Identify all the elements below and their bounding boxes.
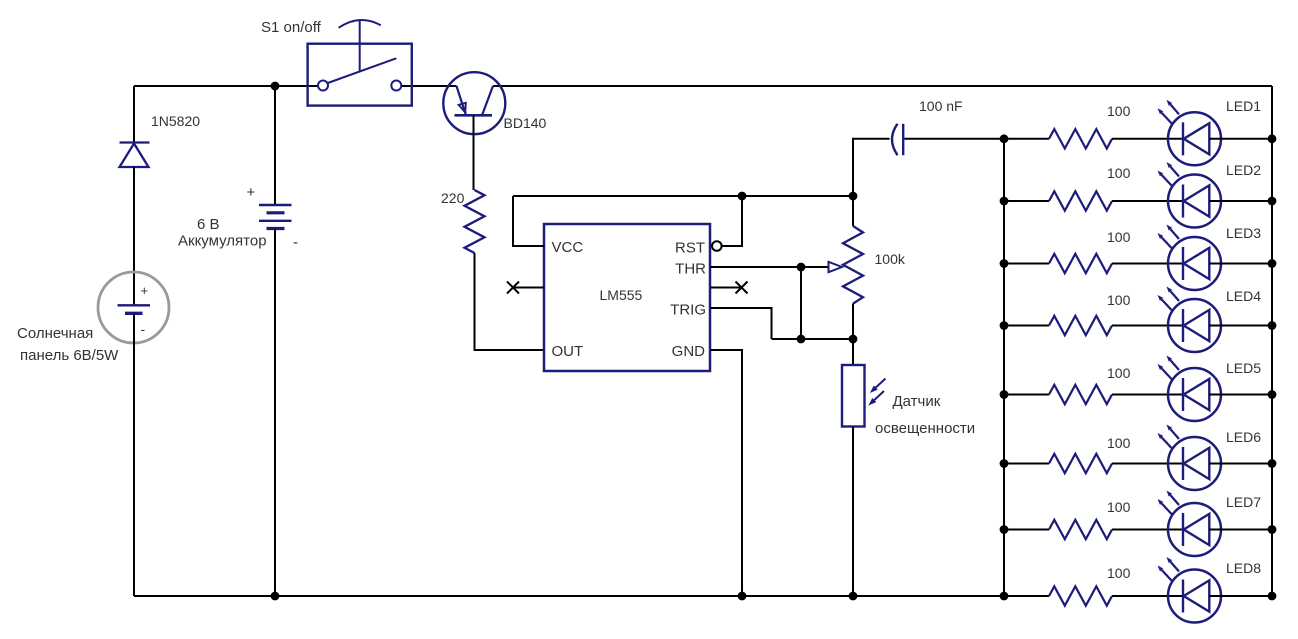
wire: top supply rail right segment (transistor to right LED bus)	[493, 85, 1272, 87]
pin label: RST	[675, 240, 705, 257]
label: LED2	[1226, 162, 1261, 178]
wire: diode anode down to solar panel	[133, 167, 135, 305]
LED5 emission arrow a	[1167, 356, 1180, 371]
label: LED7	[1226, 494, 1261, 510]
wire: row 8 left segment	[1004, 595, 1049, 597]
pin: RST inversion bubble	[712, 241, 722, 251]
label: 100 (row 1)	[1107, 103, 1131, 119]
wire: row 3 resistor to LED	[1112, 263, 1183, 265]
LED3 emission arrow b	[1158, 233, 1173, 249]
svg-text:100: 100	[1107, 292, 1131, 308]
wire: row 7 LED to right bus	[1209, 529, 1272, 531]
svg-text:100: 100	[1107, 499, 1131, 515]
LED3	[1168, 237, 1221, 290]
resistor 100 (row 8)	[1049, 586, 1112, 605]
label: 220	[441, 190, 465, 206]
op-amp/timer IC U1 LM555 body	[544, 224, 710, 371]
wire: bottom ground rail	[134, 595, 1049, 597]
junction: right bus row 4	[1268, 321, 1277, 330]
wire: TRIG pin route to TRIG node	[710, 307, 801, 339]
label: BD140	[504, 115, 547, 131]
LED1 emission arrow b	[1158, 108, 1173, 124]
resistor 100 (row 7)	[1049, 520, 1112, 539]
wire: row 1 LED to right bus	[1209, 138, 1272, 140]
label: Датчик освещенности	[875, 393, 975, 437]
svg-text:100k: 100k	[875, 251, 906, 267]
junction: right bus row 8	[1268, 592, 1277, 601]
pin label: GND	[672, 343, 706, 360]
junction: THR / wiper node	[797, 263, 806, 272]
resistor 100 (row 3)	[1049, 254, 1112, 273]
LED8 emission arrow b	[1158, 566, 1173, 582]
svg-text:GND: GND	[672, 343, 706, 360]
wire: row 4 LED to right bus	[1209, 325, 1272, 327]
wire: row 6 left segment	[1004, 463, 1049, 465]
junction: RST riser on distribution rail	[738, 192, 747, 201]
junction: battery tap on top rail	[271, 82, 280, 91]
junction: left bus row 1	[1000, 134, 1009, 143]
svg-text:100: 100	[1107, 165, 1131, 181]
wire: row 6 resistor to LED	[1112, 463, 1183, 465]
svg-text:Датчик: Датчик	[893, 393, 941, 410]
label: 100k	[875, 251, 906, 267]
svg-text:TRIG: TRIG	[670, 302, 706, 319]
label: 100 (row 8)	[1107, 565, 1131, 581]
wire: R1 bottom to OUT pin of U1	[474, 253, 545, 350]
wire: battery top lead	[274, 86, 276, 205]
junction: pot riser on distribution rail	[849, 192, 858, 201]
battery GB1 6V (Аккумулятор)	[247, 184, 299, 251]
junction: right bus row 5	[1268, 390, 1277, 399]
svg-text:LED6: LED6	[1226, 429, 1261, 445]
wire: row 5 left segment	[1004, 394, 1049, 396]
no-connect X, left pin of U1	[507, 282, 544, 294]
wire: VCC/RST/pot top distribution rail	[513, 195, 853, 197]
svg-text:-: -	[141, 321, 146, 337]
pin label: VCC	[552, 239, 584, 256]
label: 100 (row 5)	[1107, 365, 1131, 381]
junction: left bus row 6	[1000, 459, 1009, 468]
LED6 emission arrow b	[1158, 433, 1173, 449]
wire: row 2 resistor to LED	[1112, 200, 1183, 202]
junction: left bus row 5	[1000, 390, 1009, 399]
light sensor R3 (Датчик освещенности) body	[842, 365, 865, 427]
wire: row 4 resistor to LED	[1112, 325, 1183, 327]
wire: row 2 LED to right bus	[1209, 200, 1272, 202]
resistor 100 (row 5)	[1049, 385, 1112, 404]
LED8 emission arrow a	[1167, 557, 1180, 572]
label: 100 (row 2)	[1107, 165, 1131, 181]
switch S1 on/off	[308, 20, 412, 106]
label: S1 on/off	[261, 19, 322, 36]
label: LED6	[1226, 429, 1261, 445]
svg-text:6 В: 6 В	[197, 216, 220, 233]
svg-text:S1 on/off: S1 on/off	[261, 19, 322, 36]
light sensor incident arrow 2	[870, 391, 885, 405]
svg-text:освещенности: освещенности	[875, 420, 975, 437]
svg-text:+: +	[141, 283, 149, 298]
wire: top supply rail middle segment (switch to transistor)	[401, 85, 457, 87]
wire: row 8 LED to right bus	[1209, 595, 1272, 597]
LED7 emission arrow b	[1158, 499, 1173, 515]
junction: left bus row 3	[1000, 259, 1009, 268]
label: 100 nF	[919, 98, 963, 114]
label: 1N5820	[151, 113, 200, 129]
svg-text:LED8: LED8	[1226, 560, 1261, 576]
svg-text:100: 100	[1107, 565, 1131, 581]
svg-text:LED3: LED3	[1226, 225, 1261, 241]
no-connect X, right pin of U1	[710, 282, 748, 294]
junction: battery bottom on ground rail	[271, 592, 280, 601]
resistor 100 (row 1)	[1049, 129, 1112, 148]
junction: GND on ground rail	[738, 592, 747, 601]
wire: transistor base lead down to R1	[473, 115, 475, 190]
svg-text:100: 100	[1107, 365, 1131, 381]
label: 100 (row 7)	[1107, 499, 1131, 515]
solar panel G1 (Солнечная панель 6В/5W)	[98, 272, 169, 343]
label: LED5	[1226, 360, 1261, 376]
LED1 emission arrow a	[1167, 100, 1180, 115]
wire: right LED bus vertical	[1271, 86, 1273, 596]
svg-text:220: 220	[441, 190, 465, 206]
LED6 emission arrow a	[1167, 425, 1180, 440]
wire: row 2 left segment	[1004, 200, 1049, 202]
wire: wiper lead with arrow into pot	[801, 262, 842, 272]
junction: pot bottom node	[849, 335, 858, 344]
junction: right bus row 1	[1268, 134, 1277, 143]
wire: RST bubble up to top distribution rail	[722, 196, 742, 247]
LED7	[1168, 503, 1221, 556]
LED8	[1168, 570, 1221, 623]
LED6	[1168, 437, 1221, 490]
label: LED1	[1226, 98, 1261, 114]
LED5 emission arrow b	[1158, 364, 1173, 380]
wire: row 1 left segment	[1004, 138, 1049, 140]
wire: row 7 resistor to LED	[1112, 529, 1183, 531]
svg-text:THR: THR	[675, 261, 706, 278]
label: LED4	[1226, 288, 1261, 304]
svg-text:LED2: LED2	[1226, 162, 1261, 178]
wire: sensor bottom to ground rail	[852, 427, 854, 597]
LED1	[1168, 112, 1221, 165]
junction: left bus row 2	[1000, 197, 1009, 206]
wire: pot bottom lead	[852, 304, 854, 365]
svg-text:LM555: LM555	[600, 287, 643, 303]
wire: row 5 LED to right bus	[1209, 394, 1272, 396]
potentiometer R2 100k (vertical zigzag)	[843, 226, 863, 304]
svg-text:VCC: VCC	[552, 239, 584, 256]
wire: THR node down to TRIG node	[800, 267, 802, 339]
wire: THR pin to wiper node	[710, 266, 801, 268]
LED2 emission arrow a	[1167, 162, 1180, 177]
junction: left bus row 8	[1000, 592, 1009, 601]
wire: row 8 resistor to LED	[1112, 595, 1183, 597]
label: LED8	[1226, 560, 1261, 576]
svg-text:LED1: LED1	[1226, 98, 1261, 114]
label: 100 (row 6)	[1107, 435, 1131, 451]
wire: cap left lead / riser top	[852, 139, 890, 226]
LED2	[1168, 175, 1221, 228]
wire: row 7 left segment	[1004, 529, 1049, 531]
wire: top supply rail left segment	[134, 85, 318, 87]
label: 100 (row 4)	[1107, 292, 1131, 308]
transistor Q1 BD140 (PNP)	[443, 72, 505, 134]
svg-text:Аккумулятор: Аккумулятор	[178, 233, 267, 250]
svg-text:100 nF: 100 nF	[919, 98, 963, 114]
diode D1 1N5820	[120, 143, 150, 168]
capacitor C1 100 nF	[892, 124, 903, 155]
wire: left LED bus vertical	[1003, 139, 1005, 596]
svg-text:+: +	[247, 184, 256, 201]
pin label: OUT	[552, 343, 584, 360]
svg-text:OUT: OUT	[552, 343, 584, 360]
svg-text:-: -	[293, 234, 298, 251]
wire: VCC pin to top distribution rail	[513, 196, 544, 247]
wire: row 3 LED to right bus	[1209, 263, 1272, 265]
junction: left bus row 7	[1000, 525, 1009, 534]
light sensor incident arrow 1	[871, 379, 886, 393]
wire: row 6 LED to right bus	[1209, 463, 1272, 465]
wire: GND pin down to ground rail	[710, 349, 742, 596]
LED5	[1168, 368, 1221, 421]
wire: cap right lead to left LED bus	[905, 138, 1005, 140]
junction: right bus row 3	[1268, 259, 1277, 268]
svg-text:100: 100	[1107, 103, 1131, 119]
svg-text:100: 100	[1107, 229, 1131, 245]
junction: sensor on ground rail	[849, 592, 858, 601]
wire: TRIG node to pot bottom node	[801, 338, 853, 340]
LED2 emission arrow b	[1158, 171, 1173, 187]
wire: row 3 left segment	[1004, 263, 1049, 265]
resistor 100 (row 2)	[1049, 191, 1112, 210]
wire: solar panel down to bottom rail	[133, 313, 135, 596]
junction: left bus row 4	[1000, 321, 1009, 330]
svg-text:Солнечная: Солнечная	[17, 325, 93, 342]
LED4 emission arrow b	[1158, 295, 1173, 311]
resistor 100 (row 4)	[1049, 316, 1112, 335]
LED7 emission arrow a	[1167, 491, 1180, 506]
junction: right bus row 2	[1268, 197, 1277, 206]
svg-text:1N5820: 1N5820	[151, 113, 200, 129]
wire: row 5 resistor to LED	[1112, 394, 1183, 396]
junction: right bus row 7	[1268, 525, 1277, 534]
label: Солнечная панель 6В/5W	[17, 325, 119, 364]
svg-text:LED5: LED5	[1226, 360, 1261, 376]
resistor R1 220 (vertical zigzag)	[465, 190, 485, 253]
svg-text:LED4: LED4	[1226, 288, 1261, 304]
LED4 emission arrow a	[1167, 287, 1180, 302]
resistor 100 (row 6)	[1049, 454, 1112, 473]
svg-text:LED7: LED7	[1226, 494, 1261, 510]
svg-text:панель 6В/5W: панель 6В/5W	[20, 347, 119, 364]
pin label: THR	[675, 261, 706, 278]
label: 6 В Аккумулятор	[178, 216, 267, 250]
wire: row 4 left segment	[1004, 325, 1049, 327]
junction: right bus row 6	[1268, 459, 1277, 468]
wire: left vertical, top rail to diode cathode	[133, 86, 135, 143]
LED4	[1168, 299, 1221, 352]
LED3 emission arrow a	[1167, 225, 1180, 240]
svg-text:BD140: BD140	[504, 115, 547, 131]
svg-text:100: 100	[1107, 435, 1131, 451]
label: 100 (row 3)	[1107, 229, 1131, 245]
pin label: TRIG	[670, 302, 706, 319]
svg-text:RST: RST	[675, 240, 705, 257]
label: LED3	[1226, 225, 1261, 241]
wire: battery bottom lead to ground rail	[274, 229, 276, 597]
junction: TRIG node left	[797, 335, 806, 344]
wire: row 1 resistor to LED	[1112, 138, 1183, 140]
